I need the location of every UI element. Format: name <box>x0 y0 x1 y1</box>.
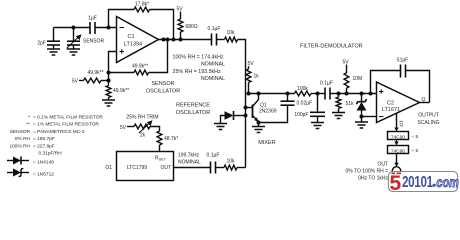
IC O1 LTC1799 <box>105 152 173 181</box>
svg-text:17.8k*: 17.8k* <box>135 2 149 8</box>
svg-text:51pF: 51pF <box>397 58 408 64</box>
svg-text:NOMINAL: NOMINAL <box>201 62 225 68</box>
ground <box>67 49 80 55</box>
svg-text:2pF: 2pF <box>37 41 46 47</box>
wire ref osc output <box>174 167 246 169</box>
label REFERENCE OSCILLATOR <box>176 103 210 117</box>
svg-text:C2: C2 <box>387 101 394 107</box>
ground <box>332 113 345 119</box>
capacitor 0.1uF filter <box>320 81 333 100</box>
resistor 48.7k* <box>157 131 178 145</box>
svg-text:0% TO 100% RH =: 0% TO 100% RH = <box>346 169 389 175</box>
notes legend <box>9 115 103 178</box>
svg-text:74C90: 74C90 <box>391 134 405 140</box>
comparator C2 LT1671 <box>377 82 426 123</box>
wire sensor input rail <box>54 27 117 29</box>
svg-text:199.7kHz: 199.7kHz <box>178 153 200 159</box>
ground <box>355 122 368 128</box>
resistor 10k sensor osc <box>225 30 238 42</box>
wire C1 output <box>159 40 246 168</box>
svg-text:NOMINAL: NOMINAL <box>201 76 225 82</box>
svg-text:SENSOR: SENSOR <box>151 81 174 87</box>
diode legend 1N4148 symbol <box>7 157 29 165</box>
svg-text:5V: 5V <box>72 79 79 85</box>
svg-text:FILTER-DEMODULATOR: FILTER-DEMODULATOR <box>300 44 363 50</box>
capacitor 0.1uF coupling <box>208 26 221 46</box>
resistor 49.9k** hysteresis <box>109 40 168 75</box>
op-amp C1 LT1394 <box>117 17 159 63</box>
svg-text:REFERENCE: REFERENCE <box>176 103 210 109</box>
divider 74C90 #2 (divide by 5) <box>388 146 419 155</box>
diode legend 1N5712 symbol <box>7 169 29 177</box>
svg-text:5: 5 <box>390 172 402 195</box>
svg-text:49.9k**: 49.9k** <box>87 70 103 76</box>
svg-text:= 1N4148: = 1N4148 <box>33 159 54 165</box>
svg-text:0.1µF: 0.1µF <box>208 26 221 32</box>
svg-text:20101: 20101 <box>402 173 433 190</box>
svg-text:74C90: 74C90 <box>391 148 405 154</box>
svg-text:LT1394: LT1394 <box>124 42 142 48</box>
diode 1N5712 schottky <box>357 94 367 123</box>
svg-text:OUT: OUT <box>160 165 171 171</box>
svg-text:SCALING: SCALING <box>418 120 440 126</box>
capacitor 100pF <box>294 94 325 123</box>
node C2 minus junction <box>360 115 364 119</box>
node 1k / collector junctions <box>247 92 320 96</box>
svg-text:25% RH TRIM: 25% RH TRIM <box>126 115 158 121</box>
wire base stub <box>246 107 253 109</box>
resistor 49.9k** to ground <box>106 86 129 98</box>
wire feedback top <box>109 10 174 40</box>
ground <box>47 49 60 55</box>
wire pot to Rset <box>150 127 160 152</box>
svg-text:com: com <box>436 175 458 191</box>
svg-text:SENSOR: SENSOR <box>10 129 31 135</box>
resistor 10k ref osc <box>224 159 237 170</box>
label OUT 0% TO 100% RH <box>346 162 389 182</box>
svg-text:= PANAMETRICS MC-2: = PANAMETRICS MC-2 <box>33 129 85 135</box>
label sensor frequencies <box>173 55 226 83</box>
label OUTPUT SCALING <box>418 113 440 127</box>
wire C2 Q output <box>420 102 430 104</box>
capacitor SENSOR (variable) <box>67 28 105 50</box>
node filter junctions <box>337 92 373 96</box>
output terminal <box>392 167 401 176</box>
svg-text:= 1% METAL FILM RESISTOR: = 1% METAL FILM RESISTOR <box>33 122 99 128</box>
svg-text:0.31pF/RH: 0.31pF/RH <box>39 151 63 157</box>
svg-text:OSCILLATOR: OSCILLATOR <box>176 110 210 116</box>
node C1 inverting input <box>107 26 111 30</box>
wire to C2 minus <box>362 116 377 118</box>
ground <box>102 100 115 106</box>
ground <box>252 127 265 133</box>
watermark 520101.com <box>388 172 458 195</box>
svg-text:100k: 100k <box>297 86 308 92</box>
svg-text:0% RH: 0% RH <box>15 136 31 142</box>
svg-text:48.7k*: 48.7k* <box>164 136 178 142</box>
svg-text:OSCILLATOR: OSCILLATOR <box>146 89 180 95</box>
label 199.7kHz NOMINAL <box>178 153 201 166</box>
svg-text:100% RH: 100% RH <box>9 144 30 150</box>
wire between dividers <box>394 140 398 146</box>
svg-text:0.1µF: 0.1µF <box>207 153 220 159</box>
capacitor 2pF <box>37 28 60 50</box>
capacitor 1uF <box>88 16 97 35</box>
svg-text:0Hz TO 1kHz: 0Hz TO 1kHz <box>358 176 388 182</box>
node mixer base summing <box>244 106 248 110</box>
ground <box>214 124 227 130</box>
svg-text:1µF: 1µF <box>88 16 97 22</box>
svg-text:10k: 10k <box>226 30 235 36</box>
svg-text:LTC1799: LTC1799 <box>127 165 147 171</box>
node C1 output junctions <box>162 38 183 42</box>
svg-text:÷ 5: ÷ 5 <box>412 134 419 140</box>
resistor 100k <box>295 86 312 96</box>
resistor 51k <box>336 94 354 113</box>
wire C2 Qbar output <box>394 113 403 132</box>
divider 74C90 #1 (divide by 5) <box>388 132 419 141</box>
svg-text:10k: 10k <box>226 159 235 165</box>
svg-text:LT1671: LT1671 <box>382 107 400 113</box>
svg-text:0.02µF: 0.02µF <box>297 101 313 107</box>
svg-text:2k: 2k <box>140 133 146 139</box>
svg-text:25% RH = 193.5kHz: 25% RH = 193.5kHz <box>173 69 221 75</box>
svg-text:100pF: 100pF <box>294 112 308 118</box>
svg-text:C1: C1 <box>127 34 134 40</box>
svg-text:5V: 5V <box>120 125 127 131</box>
svg-text:2N2369: 2N2369 <box>259 109 277 115</box>
transistor Q1 2N2369 <box>253 94 277 123</box>
capacitor 0.02uF <box>259 94 313 123</box>
node diode clamp tap <box>244 114 248 118</box>
svg-text:MIXER: MIXER <box>258 140 275 146</box>
svg-text:O1: O1 <box>105 165 112 171</box>
resistor 680 ohm <box>178 12 198 40</box>
resistor 10M <box>344 65 362 94</box>
svg-text:680Ω: 680Ω <box>186 24 198 30</box>
svg-text:= 0.1% METAL FILM RESISTOR: = 0.1% METAL FILM RESISTOR <box>33 115 103 121</box>
wire to output terminal <box>394 154 398 167</box>
svg-text:*: * <box>28 115 30 121</box>
diode 1N4148 clamp <box>221 111 246 124</box>
svg-text:1k: 1k <box>254 74 260 80</box>
svg-text:Q: Q <box>400 122 404 128</box>
svg-text:÷ 5: ÷ 5 <box>412 148 419 154</box>
svg-text:10M: 10M <box>353 76 363 82</box>
node bias tap <box>107 79 111 83</box>
node sensor junction <box>72 26 76 30</box>
svg-text:**: ** <box>26 122 30 128</box>
ground <box>311 123 324 129</box>
svg-text:= 1N5712: = 1N5712 <box>33 171 54 177</box>
svg-text:= 227.8pF: = 227.8pF <box>33 144 55 150</box>
capacitor 0.1uF ref <box>207 153 220 174</box>
svg-text:OUTPUT: OUTPUT <box>418 113 439 119</box>
node emitter <box>257 121 261 125</box>
svg-text:49.9k**: 49.9k** <box>132 64 148 70</box>
svg-text:= 196.7pF: = 196.7pF <box>33 136 55 142</box>
svg-text:SET: SET <box>159 158 167 162</box>
svg-text:100% RH = 174.4kHz: 100% RH = 174.4kHz <box>173 55 224 61</box>
svg-text:51k: 51k <box>346 101 355 107</box>
resistor 17.8k* <box>134 2 150 12</box>
wire mixer output rail <box>249 93 377 95</box>
svg-text:0.1µF: 0.1µF <box>320 81 333 87</box>
svg-text:49.9k**: 49.9k** <box>113 88 129 94</box>
resistor 1k <box>246 66 259 94</box>
svg-text:NOMINAL: NOMINAL <box>178 160 201 166</box>
node hysteresis tap <box>107 71 111 75</box>
svg-text:SENSOR: SENSOR <box>83 39 105 45</box>
potentiometer 2k <box>127 120 153 138</box>
wire C1 + input network <box>109 52 117 101</box>
svg-text:OUT: OUT <box>377 162 388 168</box>
label SENSOR OSCILLATOR <box>146 81 180 95</box>
resistor 49.9k** to 5V <box>79 70 109 83</box>
capacitor 51pF <box>371 58 430 103</box>
